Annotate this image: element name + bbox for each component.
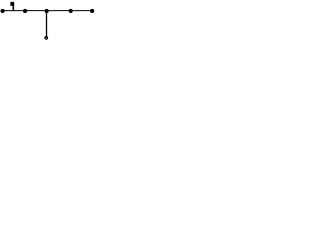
wire: horizontal bus net <box>3 10 93 11</box>
junction node A <box>23 9 27 13</box>
terminal pad at right end of bus <box>90 9 94 13</box>
junction node C <box>69 9 73 13</box>
wire: vertical stub from top-left terminal down to bus <box>12 4 14 11</box>
terminal pad at left end of bus <box>1 9 5 13</box>
pin hole in bottom terminal pad <box>46 38 47 39</box>
terminal pad (square) at top-left <box>10 2 14 6</box>
junction node B (tap for vertical drop) <box>45 9 49 13</box>
wire: vertical drop from junction to bottom terminal <box>46 11 48 38</box>
terminal pad at bottom of drop <box>44 36 48 40</box>
